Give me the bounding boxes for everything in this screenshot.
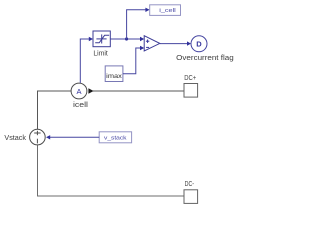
arrowhead into outport (187, 41, 191, 45)
svg-text:DC-: DC- (185, 181, 195, 188)
wire Vstack top to ammeter (38, 91, 72, 129)
wire v_stack to Vstack source (50, 136, 99, 138)
port DC- (184, 190, 198, 204)
svg-text:imax: imax (106, 73, 122, 80)
saturation block Limit (93, 31, 110, 47)
comparator (144, 36, 160, 51)
wire imax to comparator minus input (123, 48, 140, 74)
voltage source Vstack (30, 129, 46, 145)
svg-text:Limit: Limit (93, 50, 107, 57)
ammeter icell (71, 83, 87, 99)
wire Vstack bottom to DC- (38, 145, 185, 196)
wire ammeter measurement to Limit (80, 39, 89, 83)
arrowhead into i_cell (145, 8, 149, 12)
arrowhead ammeter output (88, 88, 93, 93)
wire ammeter to DC+ (93, 90, 184, 92)
goto block i_cell (150, 5, 181, 16)
svg-text:v_stack: v_stack (104, 136, 127, 142)
wire branch junction up to goto i_cell (127, 10, 146, 39)
outport D Overcurrent flag (191, 36, 207, 52)
svg-text:DC+: DC+ (184, 75, 196, 82)
svg-text:Overcurrent flag: Overcurrent flag (176, 55, 234, 62)
arrowhead into Limit (89, 37, 93, 41)
svg-text:Vstack: Vstack (4, 135, 26, 142)
svg-text:i_cell: i_cell (159, 8, 176, 14)
arrowhead into comparator plus (140, 37, 144, 41)
svg-text:icell: icell (73, 102, 89, 109)
svg-text:A: A (76, 87, 81, 96)
arrowhead into comparator minus (140, 46, 144, 50)
svg-text:D: D (196, 40, 202, 49)
arrowhead into Vstack (46, 135, 50, 139)
junction (125, 37, 128, 40)
wire Limit output to comparator plus input (110, 38, 140, 40)
wire comparator to outport (160, 43, 187, 45)
constant imax (105, 66, 123, 82)
from block v_stack (99, 132, 131, 143)
port DC+ (184, 84, 198, 98)
